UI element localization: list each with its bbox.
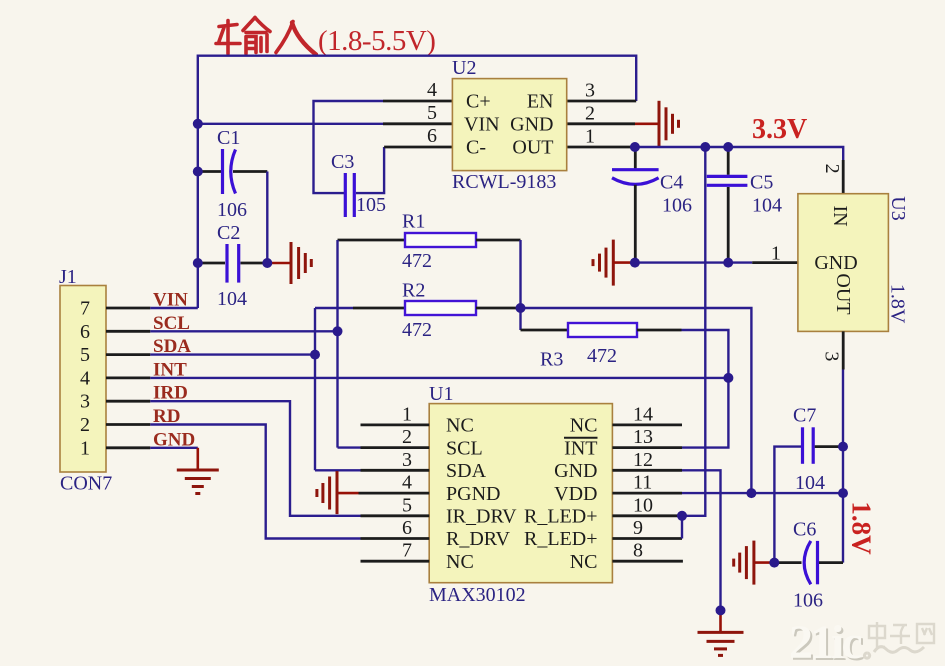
- node GND bottom: [716, 605, 726, 615]
- svg-text:GND: GND: [554, 460, 597, 482]
- svg-text:472: 472: [402, 319, 432, 341]
- capacitor C1: [199, 127, 267, 221]
- wire U2 pin3 stub: [567, 100, 637, 103]
- svg-text:4: 4: [402, 472, 412, 494]
- ground at C2: [291, 242, 311, 284]
- svg-text:C7: C7: [793, 405, 816, 427]
- IC U1 MAX30102: [429, 383, 612, 606]
- wire U2 pin2 to ground: [635, 123, 659, 126]
- svg-text:11: 11: [633, 472, 652, 494]
- wire R1/R2 junction down to R3: [519, 240, 521, 330]
- wire IRD to U1 pin5: [150, 401, 360, 516]
- wire U1 pin2 stub: [338, 446, 361, 448]
- svg-text:4: 4: [427, 79, 437, 101]
- svg-text:2: 2: [80, 414, 90, 436]
- wire J1 pin4 stub: [106, 376, 150, 379]
- svg-text:1: 1: [771, 243, 781, 265]
- svg-text:C3: C3: [331, 151, 354, 173]
- node U2 OUT: [630, 142, 640, 152]
- svg-text:CON7: CON7: [60, 473, 112, 495]
- svg-text:GND: GND: [814, 252, 857, 274]
- wire GND stem: [197, 448, 200, 470]
- svg-text:106: 106: [662, 195, 692, 217]
- resistor R3: [521, 323, 682, 371]
- capacitor C3: [331, 151, 386, 217]
- ground at C4/C5 row: [593, 240, 613, 286]
- node VIN/pin5: [193, 119, 203, 129]
- wire SDA: [150, 353, 315, 355]
- IC U2 RCWL-9183: [452, 57, 567, 193]
- svg-text:8: 8: [633, 540, 643, 562]
- node pin9/pin10: [677, 511, 687, 521]
- node 1.8V/U3 out: [838, 488, 848, 498]
- svg-text:7: 7: [402, 540, 412, 562]
- node C5 bottom: [723, 258, 733, 268]
- svg-text:SCL: SCL: [446, 437, 483, 459]
- wire R3 right to INT net: [682, 330, 729, 448]
- svg-text:U2: U2: [452, 57, 476, 79]
- wire pullup net to 1.8V: [521, 308, 752, 493]
- wire pin9 to pin10: [681, 516, 683, 539]
- svg-text:472: 472: [587, 345, 617, 367]
- svg-text:6: 6: [427, 125, 437, 147]
- svg-text:106: 106: [793, 590, 823, 612]
- svg-text:NC: NC: [446, 415, 474, 437]
- capacitor C4: [612, 147, 692, 263]
- wire U2 pin4 to C3 left: [314, 101, 384, 193]
- svg-text:VIN: VIN: [464, 114, 500, 136]
- svg-text:IN: IN: [829, 205, 851, 226]
- node 1.8V/pullups: [746, 488, 756, 498]
- svg-text:NC: NC: [570, 415, 598, 437]
- svg-text:EN: EN: [527, 91, 554, 113]
- wire U1 pin13 stub: [612, 446, 682, 449]
- svg-text:104: 104: [217, 288, 247, 310]
- ground at J1: [177, 470, 219, 494]
- wire GND: [150, 447, 198, 449]
- svg-text:1.8V: 1.8V: [847, 501, 877, 555]
- svg-text:C4: C4: [660, 172, 683, 194]
- wire U1 pin4 stub: [359, 492, 430, 495]
- svg-text:21ic: 21ic: [789, 616, 862, 666]
- svg-text:5: 5: [427, 102, 437, 124]
- wire C1 right to C2 right: [266, 172, 268, 264]
- svg-text:2: 2: [585, 102, 595, 124]
- wire GND stem to ground: [719, 610, 722, 632]
- wire U3 pin1 stub: [752, 261, 798, 264]
- wire U1 pin12 stub: [612, 469, 682, 472]
- svg-text:PGND: PGND: [446, 483, 500, 505]
- wire 1.8V row: [682, 492, 843, 494]
- node INT/R3: [723, 373, 733, 383]
- wire gnd row to U3 pin1: [635, 261, 752, 263]
- wire U2 pin5: [198, 123, 383, 125]
- svg-text:NC: NC: [446, 551, 474, 573]
- wire ground to C4: [613, 261, 635, 264]
- svg-text:OUT: OUT: [512, 137, 553, 159]
- wire J1 pin6 stub: [106, 330, 150, 333]
- svg-text:3: 3: [585, 80, 595, 102]
- svg-text:4: 4: [80, 367, 90, 389]
- ground at bottom: [698, 632, 744, 655]
- svg-text:14: 14: [633, 403, 653, 425]
- svg-text:R_DRV: R_DRV: [446, 528, 511, 550]
- wire RD to U1 pin6: [150, 425, 360, 539]
- capacitor C6: [776, 519, 843, 612]
- wire C6 to ground: [754, 561, 774, 564]
- svg-text:472: 472: [402, 250, 432, 272]
- wire U1 pin1 stub: [361, 423, 430, 426]
- wire U2 pin6 stub: [384, 146, 452, 149]
- svg-text:1.8V: 1.8V: [887, 284, 909, 324]
- watermark 21ic: [789, 616, 934, 666]
- node C2 left: [193, 258, 203, 268]
- ground at U1 PGND: [317, 471, 337, 514]
- svg-text:1: 1: [80, 437, 90, 459]
- capacitor C2: [199, 222, 267, 310]
- svg-text:106: 106: [217, 199, 247, 221]
- svg-text:R2: R2: [402, 280, 425, 302]
- IC U3 1.8V regulator: [798, 194, 909, 332]
- capacitor C5: [707, 147, 782, 263]
- wire C2 to ground: [267, 262, 291, 265]
- svg-text:IR_DRV: IR_DRV: [446, 506, 517, 528]
- svg-text:3: 3: [80, 391, 90, 413]
- connector J1 CON7: [59, 266, 112, 495]
- svg-text:U1: U1: [429, 383, 453, 405]
- node C2 right: [262, 258, 272, 268]
- wire U3 pin3 down to C6: [842, 370, 844, 563]
- svg-text:1: 1: [402, 403, 412, 425]
- wire U1 pin12 GND net down: [682, 470, 721, 610]
- svg-text:104: 104: [795, 472, 825, 494]
- svg-text:105: 105: [356, 194, 386, 216]
- wire U1 pin14 stub: [612, 423, 682, 426]
- svg-text:5: 5: [80, 344, 90, 366]
- wire U1 pin5 stub: [361, 514, 430, 517]
- svg-text:U3: U3: [887, 196, 909, 220]
- wire INT: [150, 377, 728, 379]
- svg-text:9: 9: [633, 517, 643, 539]
- node 3.3V branch: [700, 142, 710, 152]
- svg-text:10: 10: [633, 494, 653, 516]
- svg-text:INT: INT: [564, 437, 597, 459]
- svg-text:GND: GND: [510, 114, 553, 136]
- wire U2 pin1 stub: [567, 146, 635, 149]
- svg-text:RCWL-9183: RCWL-9183: [452, 171, 556, 193]
- node C7 right: [838, 442, 848, 452]
- wire U1 pin9 stub: [612, 537, 682, 540]
- svg-text:5: 5: [402, 494, 412, 516]
- wire U2 pin6 to C3 right: [356, 147, 384, 193]
- svg-text:R1: R1: [402, 211, 425, 233]
- svg-text:C5: C5: [750, 172, 773, 194]
- ground at C6: [734, 541, 754, 585]
- wire U1 pin10 stub: [612, 514, 682, 517]
- svg-text:2: 2: [402, 426, 412, 448]
- svg-text:3.3V: 3.3V: [752, 114, 807, 145]
- svg-text:2: 2: [821, 164, 843, 174]
- node SDA/R2: [310, 350, 320, 360]
- node C5 top: [723, 142, 733, 152]
- svg-text:C-: C-: [466, 137, 486, 159]
- svg-text:7: 7: [80, 298, 90, 320]
- node C1 left: [193, 167, 203, 177]
- svg-text:R3: R3: [540, 349, 563, 371]
- wire pin10 to 3.3V vertical: [682, 147, 705, 516]
- title 输入(1.8-5.5V): [216, 18, 316, 55]
- svg-text:12: 12: [633, 449, 653, 471]
- wire VIN: [150, 307, 198, 309]
- wire U1 pin6 stub: [361, 537, 430, 540]
- ground at U2 pin2: [659, 101, 679, 147]
- node C6 left: [769, 558, 779, 568]
- svg-text:NC: NC: [570, 551, 598, 573]
- svg-text:3: 3: [402, 449, 412, 471]
- wire U1 pin3 stub: [315, 469, 361, 471]
- node SCL/R1: [333, 326, 343, 336]
- svg-text:104: 104: [752, 195, 782, 217]
- svg-text:C2: C2: [217, 222, 240, 244]
- wire U1 pin11 stub: [612, 492, 682, 495]
- wire U1 pin8 stub: [612, 560, 683, 563]
- capacitor C7: [774, 405, 843, 563]
- svg-text:6: 6: [80, 321, 90, 343]
- wire top rail: [198, 56, 636, 308]
- svg-text:C6: C6: [793, 519, 816, 541]
- node R1/R2/R3: [516, 303, 526, 313]
- wire U2 pin2 stub: [567, 122, 635, 125]
- svg-text:13: 13: [633, 426, 653, 448]
- wire R2 left down to SDA and U1 pin3: [314, 308, 316, 470]
- resistor R2: [315, 280, 521, 342]
- node C4 bottom: [630, 258, 640, 268]
- wire SCL: [150, 330, 337, 332]
- svg-text:VDD: VDD: [554, 483, 597, 505]
- wire J1 pin5 stub: [106, 353, 150, 356]
- wire PGND to ground: [337, 492, 359, 495]
- svg-text:C1: C1: [217, 127, 240, 149]
- svg-text:J1: J1: [59, 266, 77, 288]
- wire J1 pin3 stub: [106, 400, 150, 403]
- svg-text:3: 3: [820, 351, 842, 361]
- svg-text:C+: C+: [466, 91, 491, 113]
- svg-text:MAX30102: MAX30102: [429, 584, 526, 606]
- svg-text:R_LED+: R_LED+: [524, 506, 598, 528]
- wire J1 pin2 stub: [106, 423, 150, 426]
- svg-text:6: 6: [402, 517, 412, 539]
- svg-text:OUT: OUT: [832, 273, 854, 314]
- wire U3 pin2 stub: [842, 160, 845, 194]
- wire U1 pin7 stub: [361, 560, 430, 563]
- wire 3.3V rail: [635, 147, 843, 160]
- svg-text:1: 1: [585, 126, 595, 148]
- wire J1 pin7 stub: [106, 307, 150, 310]
- wire U2 pin5 stub: [383, 122, 452, 125]
- svg-text:SDA: SDA: [446, 460, 487, 482]
- svg-text:(1.8-5.5V): (1.8-5.5V): [318, 25, 435, 57]
- wire U3 pin3 stub: [842, 331, 845, 369]
- svg-text:R_LED+: R_LED+: [524, 528, 598, 550]
- resistor R1: [338, 211, 521, 273]
- wire U2 pin4 stub: [383, 100, 452, 103]
- wire R1 left down to SCL and U1 pin2: [336, 240, 338, 448]
- wire J1 pin1 stub: [106, 446, 150, 449]
